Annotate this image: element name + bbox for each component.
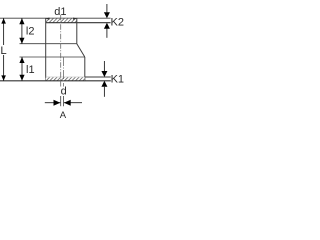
- l1 bottom arrow: [19, 75, 24, 81]
- svg-text:d1: d1: [54, 6, 66, 18]
- dimension K2 arrow shafts: [106, 4, 108, 12]
- right wall upper section: [76, 18, 78, 44]
- L bottom arrow: [1, 75, 6, 80]
- L top arrow: [1, 18, 6, 23]
- left wall of fitting: [45, 18, 47, 81]
- K2 up arrow: [104, 23, 110, 29]
- dimension l1 line: [21, 57, 23, 81]
- axis stub below d label (upper pipe): [60, 96, 62, 106]
- l2 top arrow: [19, 18, 24, 24]
- svg-text:l1: l1: [26, 64, 35, 76]
- svg-text:L: L: [0, 45, 6, 57]
- bottom edge line (band bottom, extends left for L/l1, right for K1): [0, 80, 111, 82]
- axis of lower pipe (dash-dot): [63, 57, 65, 87]
- K1 up arrow: [101, 81, 107, 87]
- taper diagonal: [77, 44, 85, 57]
- l1 top arrow: [19, 57, 24, 63]
- dimension d/A line left segment: [45, 102, 61, 104]
- K1 upper reference line: [85, 76, 111, 78]
- l2 bottom arrow: [19, 38, 24, 44]
- A right arrow (pointing left at axis stub): [64, 100, 71, 106]
- dimension K1 arrow shafts: [103, 61, 105, 71]
- svg-text:K2: K2: [111, 17, 124, 29]
- upper shoulder line (taper start, extends left for l2): [20, 43, 77, 45]
- K1 down arrow: [101, 71, 107, 77]
- axis stub below d label (lower pipe): [63, 96, 65, 106]
- svg-text:l2: l2: [26, 26, 35, 38]
- svg-text:K1: K1: [111, 74, 124, 86]
- A left arrow (pointing right at axis stub): [54, 100, 61, 106]
- top band hatched face d1: [46, 19, 77, 23]
- dimension l2 line: [21, 18, 23, 44]
- top reference line (band top edge, extends left for L/l2, right for K2/d1): [0, 17, 111, 19]
- bottom band hatched face d: [46, 77, 85, 80]
- lower shoulder line (taper end, extends left for l1): [20, 56, 85, 58]
- svg-text:d: d: [61, 86, 67, 98]
- right wall lower section: [84, 57, 86, 81]
- dimension d1 arrow right (inside, pointing outward): [73, 18, 77, 20]
- top band bottom edge + K2 lower reference line: [46, 22, 111, 24]
- K2 down arrow: [104, 12, 110, 18]
- dimension L line: [3, 18, 5, 45]
- bottom band top edge (light interior line): [46, 76, 85, 78]
- dimension d/A line right segment: [64, 102, 82, 104]
- dimension d1 arrow left (inside, pointing outward): [46, 18, 50, 20]
- axis of upper pipe (dash-dot): [60, 15, 62, 87]
- svg-text:A: A: [60, 110, 67, 121]
